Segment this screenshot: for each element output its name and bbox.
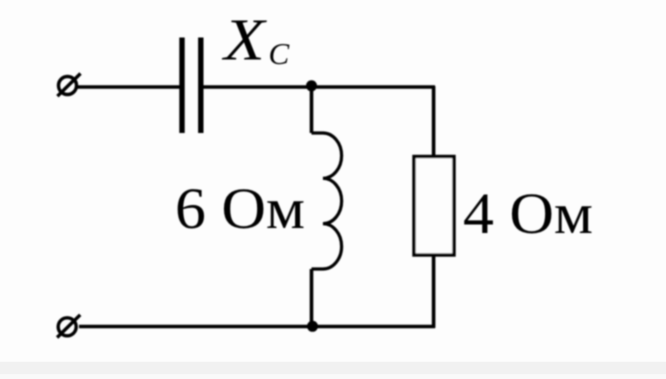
wire right vertical lower (resistor bottom to corner) xyxy=(432,255,436,328)
capacitor C plate right xyxy=(198,38,203,134)
terminal T1 top-left circle xyxy=(59,77,77,95)
bottom gray band xyxy=(0,362,666,374)
resistor R1 (4 Om) body xyxy=(414,157,454,256)
node A junction dot xyxy=(306,80,317,91)
wire middle vertical lower (inductor to node B) xyxy=(310,269,314,327)
terminal T2 bottom-left circle xyxy=(58,318,76,336)
capacitor C plate left xyxy=(179,38,184,134)
wire top-right (node A to right corner) xyxy=(312,85,436,89)
wire middle vertical upper (node A to inductor) xyxy=(310,87,314,133)
wire right vertical upper (corner to resistor top) xyxy=(432,86,436,156)
svg-text:X: X xyxy=(221,7,268,73)
label XC (capacitor reactance) xyxy=(221,7,290,73)
svg-text:4 Ом: 4 Ом xyxy=(463,181,593,246)
inductor L1 (6 Om) three humps xyxy=(312,133,342,269)
wire bottom (right corner to T2) xyxy=(79,325,435,329)
terminal T2 slash xyxy=(57,315,80,338)
bottom lighter strip xyxy=(0,374,666,379)
terminal T1 slash xyxy=(57,74,80,97)
svg-text:C: C xyxy=(269,36,290,71)
node B junction dot xyxy=(307,321,318,332)
svg-text:6 Ом: 6 Ом xyxy=(175,176,305,241)
wire top-middle (capacitor to node A) xyxy=(204,85,312,89)
wire top-left (T1 to capacitor) xyxy=(77,85,180,89)
